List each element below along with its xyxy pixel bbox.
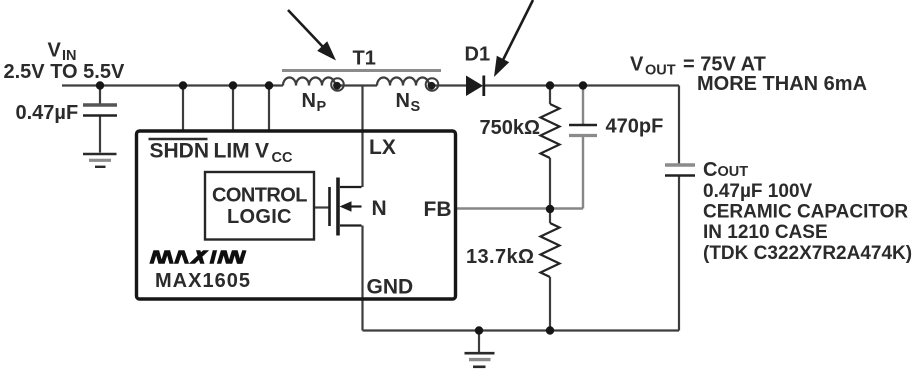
svg-text:N: N	[372, 197, 387, 220]
svg-text:OUT: OUT	[718, 164, 749, 180]
svg-text:OUT: OUT	[645, 63, 676, 79]
svg-text:GND: GND	[367, 276, 414, 299]
svg-text:N: N	[302, 90, 316, 112]
svg-text:V: V	[255, 140, 269, 163]
svg-text:MAX1605: MAX1605	[155, 270, 250, 292]
svg-text:LIM: LIM	[214, 140, 250, 163]
svg-text:IN: IN	[62, 48, 77, 64]
svg-text:N: N	[396, 90, 410, 112]
svg-text:IN 1210 CASE: IN 1210 CASE	[703, 222, 828, 243]
svg-text:CERAMIC CAPACITOR: CERAMIC CAPACITOR	[703, 202, 908, 223]
svg-text:T1: T1	[353, 48, 376, 70]
svg-text:CONTROL: CONTROL	[212, 185, 308, 207]
svg-text:LOGIC: LOGIC	[227, 206, 292, 228]
svg-text:(TDK C322X7R2A474K): (TDK C322X7R2A474K)	[703, 243, 912, 264]
svg-text:S: S	[411, 99, 421, 115]
svg-text:750kΩ: 750kΩ	[479, 117, 540, 139]
svg-text:470pF: 470pF	[606, 116, 664, 138]
svg-text:LX: LX	[369, 136, 396, 159]
svg-text:V: V	[48, 40, 62, 62]
svg-text:SHDN: SHDN	[150, 140, 210, 163]
svg-text:V: V	[630, 54, 644, 76]
svg-text:13.7kΩ: 13.7kΩ	[466, 246, 534, 268]
svg-text:P: P	[317, 99, 327, 115]
svg-text:0.47µF 100V: 0.47µF 100V	[703, 181, 813, 202]
svg-text:FB: FB	[424, 198, 452, 221]
svg-text:D1: D1	[465, 44, 491, 66]
svg-text:0.47µF: 0.47µF	[16, 102, 79, 124]
svg-text:2.5V TO 5.5V: 2.5V TO 5.5V	[4, 61, 125, 83]
svg-text:C: C	[703, 159, 717, 181]
svg-text:CC: CC	[272, 150, 293, 166]
svg-text:MORE THAN 6mA: MORE THAN 6mA	[697, 73, 867, 95]
